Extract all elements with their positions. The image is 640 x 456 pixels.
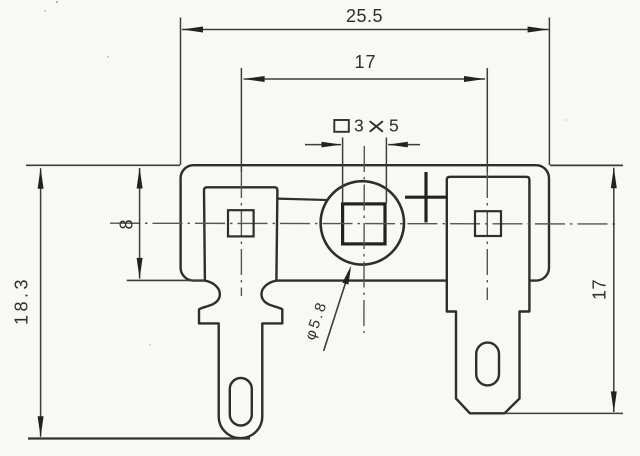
dust specks (scan artifacts) xyxy=(44,1,567,346)
svg-text:3: 3 xyxy=(354,115,364,135)
dimension 25.5 line xyxy=(182,27,549,33)
dimension 3x5 square symbol xyxy=(334,120,349,132)
body plate outline xyxy=(181,165,549,280)
square hole xyxy=(343,204,385,244)
svg-text:18.3: 18.3 xyxy=(11,276,31,325)
horizontal centerline xyxy=(110,222,619,225)
left tab terminal outline xyxy=(199,187,282,438)
center circle xyxy=(321,181,404,264)
dimension 8 extension line bottom xyxy=(127,279,205,281)
svg-text:17: 17 xyxy=(589,279,609,300)
vertical centerline center xyxy=(363,146,365,333)
svg-text:8: 8 xyxy=(116,219,136,229)
right tab terminal outline xyxy=(447,177,530,413)
bottom baseline left xyxy=(28,437,250,439)
left tab centerline xyxy=(240,68,242,296)
left tab slot xyxy=(230,378,252,426)
dimension 18.3 line xyxy=(38,168,44,437)
small square left tab xyxy=(228,210,254,236)
svg-text:25.5: 25.5 xyxy=(346,6,383,26)
right tab centerline xyxy=(486,68,488,300)
cross mark xyxy=(405,172,447,222)
svg-text:17: 17 xyxy=(354,52,376,72)
dimension 3x5 arrows xyxy=(305,142,420,148)
dimension 17 top line xyxy=(244,76,485,82)
dimension 8 line xyxy=(137,168,143,279)
dimension 3x5 extension lines xyxy=(343,138,387,204)
body top edge extension right xyxy=(550,164,623,166)
body top edge extension left xyxy=(26,164,180,166)
dimension 25.5 extension lines xyxy=(181,18,550,166)
dimension 17 right line xyxy=(611,167,617,412)
connector line left of circle xyxy=(278,199,334,201)
dimension 3x5 multiplication sign xyxy=(370,122,382,132)
svg-text:5: 5 xyxy=(389,115,399,135)
leader line phi 5.8 xyxy=(324,266,352,352)
small square right tab xyxy=(475,211,501,236)
right tab slot xyxy=(476,343,499,386)
dimension 17 right bottom extension xyxy=(505,412,624,414)
